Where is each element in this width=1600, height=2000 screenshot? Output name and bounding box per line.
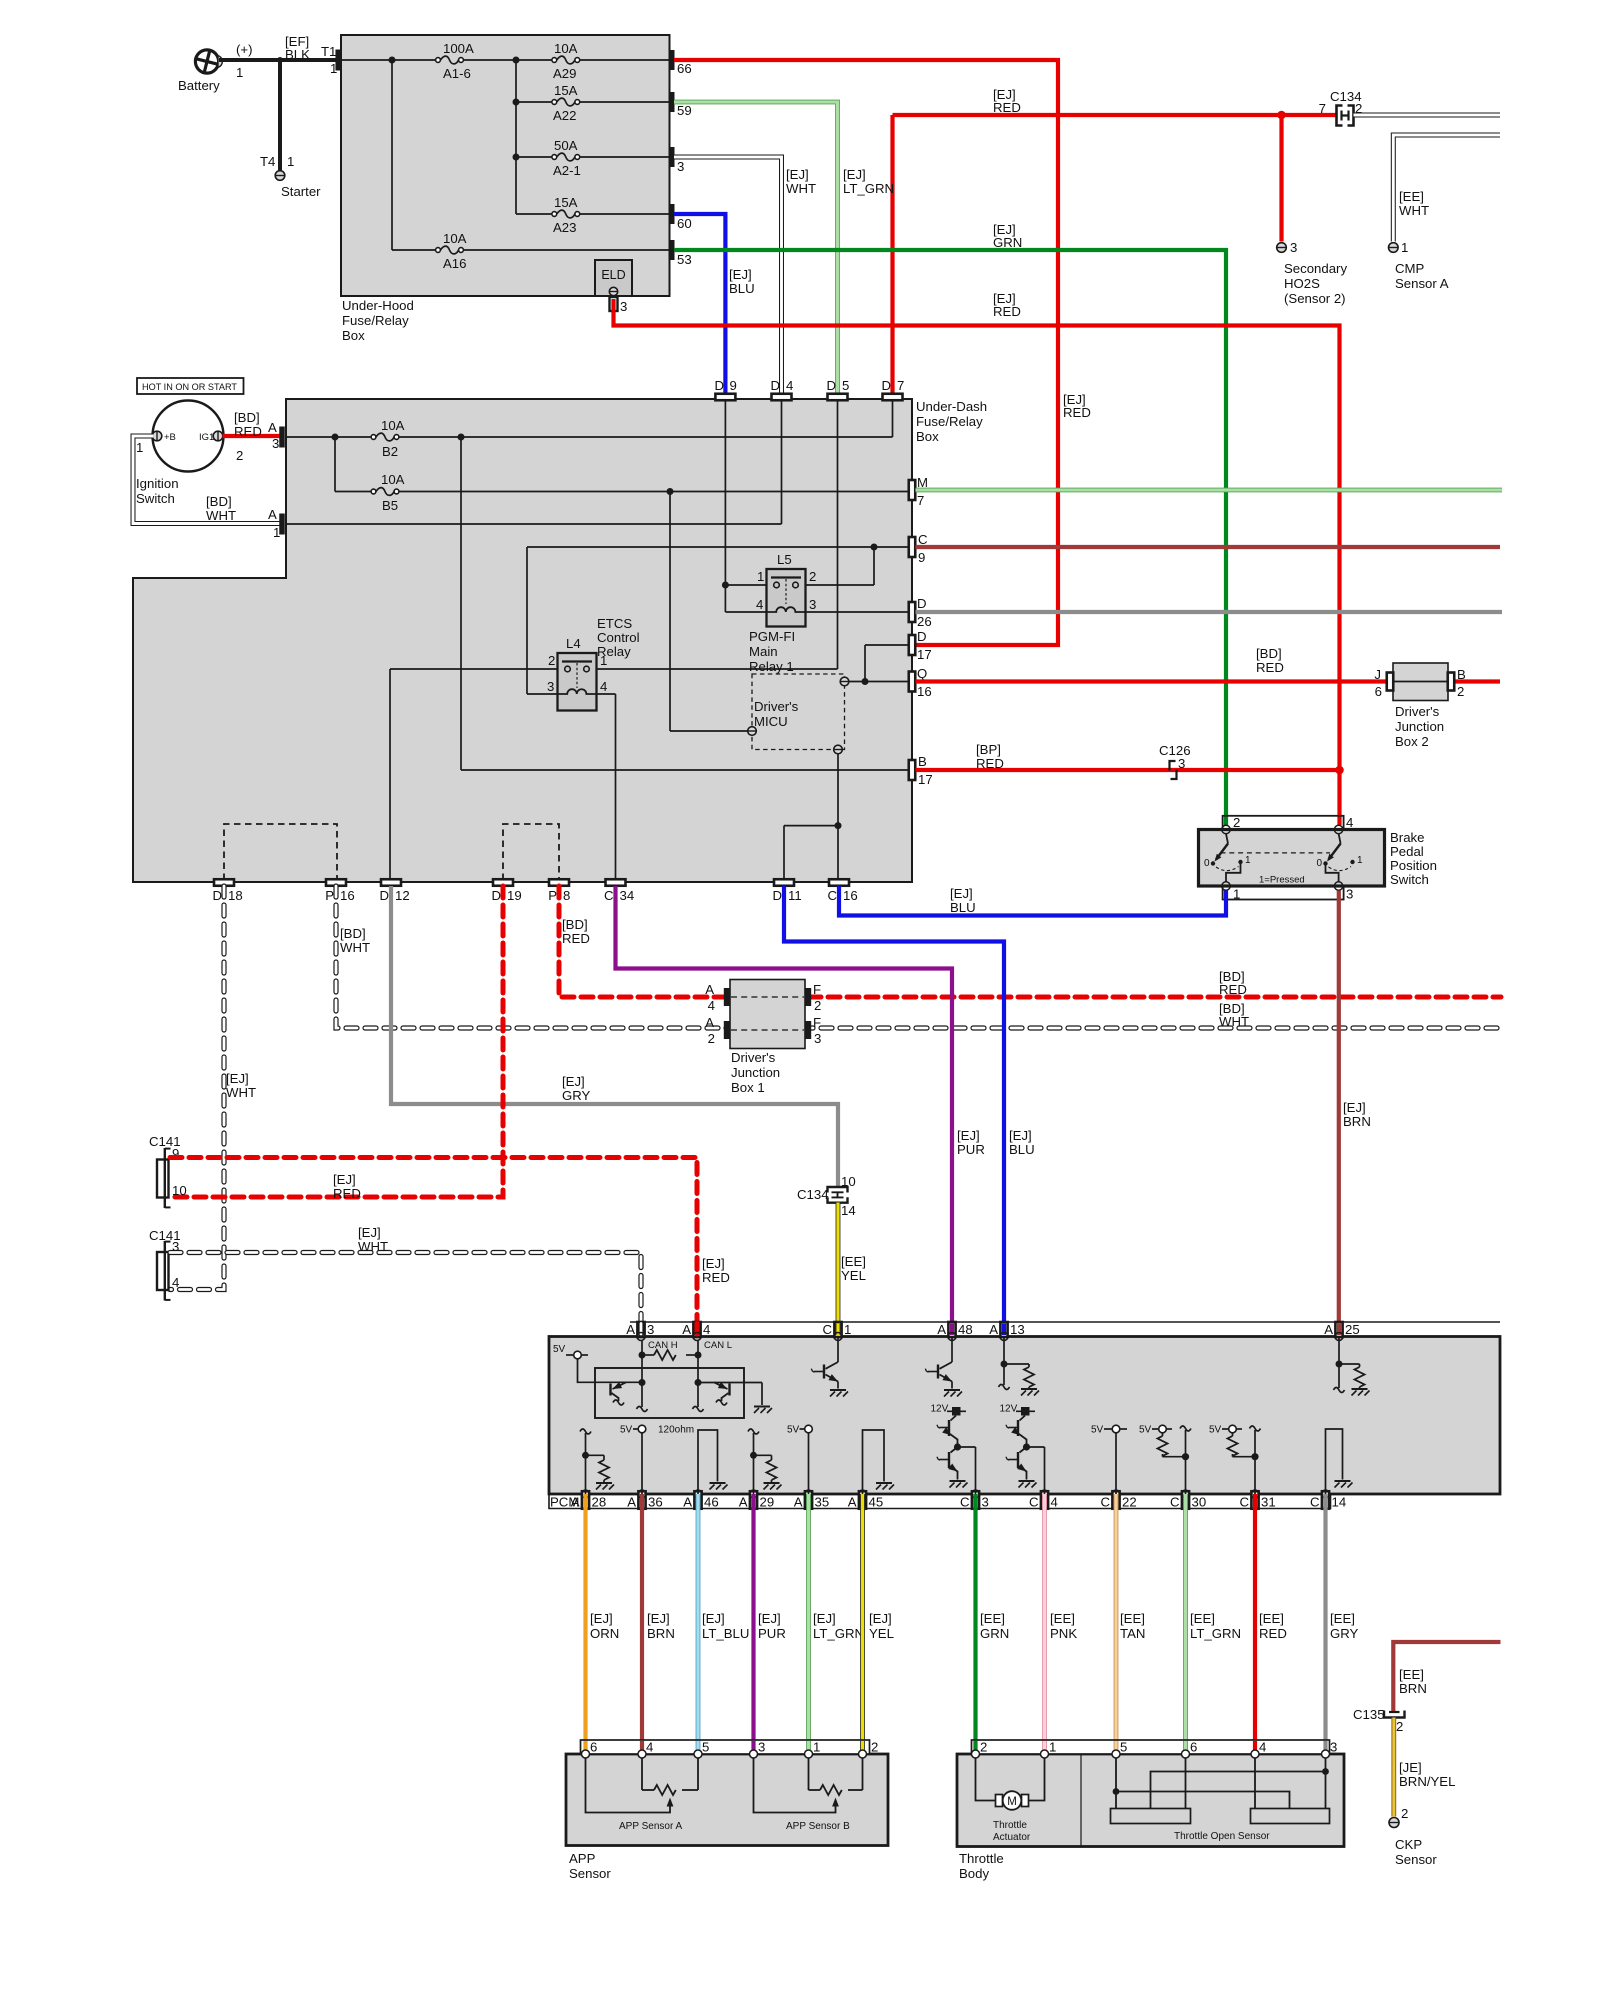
- svg-text:Body: Body: [959, 1866, 989, 1881]
- junction: [389, 57, 396, 64]
- svg-text:Throttle Open Sensor: Throttle Open Sensor: [1174, 1831, 1270, 1842]
- wire [EJ] RED ELD to brake switch pin 4: [614, 299, 1340, 825]
- connector 60: [670, 204, 675, 224]
- wire [EE] WHT to CMP sensor: [1393, 135, 1500, 242]
- connector B2: [1448, 673, 1455, 691]
- svg-text:Sensor: Sensor: [1395, 1852, 1437, 1867]
- svg-text:Starter: Starter: [281, 184, 321, 199]
- brake switch terminal 1: [1222, 882, 1230, 890]
- wire stub A25 maroon: [1337, 1324, 1341, 1336]
- fuse 10A A16: [436, 248, 441, 253]
- junction: [667, 488, 674, 495]
- svg-text:Relay: Relay: [597, 644, 631, 659]
- dashed link D18-P16: [224, 824, 337, 880]
- HOT IN ON OR START tag: [137, 378, 244, 394]
- svg-text:C135: C135: [1353, 1707, 1385, 1722]
- svg-text:J: J: [1374, 667, 1381, 682]
- PCM bottom pin A28: [582, 1491, 589, 1509]
- throttle wire pin3: [1325, 1758, 1327, 1809]
- APP pin terminal: [859, 1750, 867, 1758]
- svg-text:RED: RED: [1063, 405, 1091, 420]
- svg-text:A22: A22: [553, 108, 576, 123]
- connector C141 upper: [157, 1160, 169, 1198]
- svg-text:APP: APP: [569, 1851, 596, 1866]
- PCM top pin A48: [948, 1322, 955, 1337]
- wire L4 pin 4 to C34: [597, 693, 616, 695]
- svg-text:2: 2: [1233, 815, 1240, 830]
- connector C134 (lower): [828, 1187, 848, 1193]
- svg-text:1: 1: [1233, 887, 1240, 902]
- connector 3: [670, 147, 675, 167]
- svg-text:Relay 1: Relay 1: [749, 659, 794, 674]
- svg-text:2: 2: [1457, 684, 1464, 699]
- brake switch left contact arc: [1216, 867, 1239, 871]
- svg-text:B2: B2: [382, 444, 398, 459]
- svg-text:2: 2: [236, 448, 243, 463]
- svg-text:[EE]: [EE]: [1259, 1611, 1284, 1626]
- connector D9: [715, 394, 735, 401]
- connector D12: [381, 879, 401, 886]
- wire [BD] WHT P16 dashed: [336, 886, 1502, 1028]
- svg-text:ETCS: ETCS: [597, 616, 632, 631]
- connector A3: [279, 427, 285, 448]
- svg-text:Junction: Junction: [731, 1065, 780, 1080]
- svg-text:5V: 5V: [620, 1425, 633, 1436]
- PCM top pin A3: [637, 1322, 644, 1337]
- svg-text:1: 1: [757, 569, 764, 584]
- throttle pin terminal: [1041, 1750, 1049, 1758]
- connector A2: [724, 1021, 730, 1039]
- svg-text:3: 3: [677, 159, 684, 174]
- svg-text:5V: 5V: [553, 1344, 566, 1355]
- wire [EJ] LT_GRN M7: [916, 488, 1503, 493]
- svg-text:GRN: GRN: [993, 235, 1022, 250]
- brake switch right contact arc: [1329, 867, 1352, 871]
- wire stub throttle 5 tan: [1114, 1741, 1119, 1750]
- svg-text:A: A: [794, 1495, 803, 1510]
- svg-text:Control: Control: [597, 630, 640, 645]
- PCM top pin A25: [1335, 1322, 1342, 1337]
- ignition IG1 terminal: [213, 431, 223, 441]
- throttle pin terminal: [1251, 1750, 1259, 1758]
- svg-text:MICU: MICU: [754, 714, 788, 729]
- svg-text:10: 10: [172, 1183, 187, 1198]
- svg-text:RED: RED: [993, 100, 1021, 115]
- wire [EJ] RED 66 to D17: [674, 60, 1058, 645]
- svg-text:46: 46: [704, 1495, 719, 1510]
- svg-text:0: 0: [1204, 858, 1210, 869]
- wire [EE] LT_GRN C30 to throttle 6: [1183, 1494, 1188, 1754]
- connector 53: [670, 240, 675, 260]
- svg-text:WHT: WHT: [358, 1239, 388, 1254]
- svg-text:C: C: [960, 1495, 970, 1510]
- svg-text:BLU: BLU: [1009, 1142, 1035, 1157]
- svg-text:(+): (+): [236, 42, 252, 57]
- svg-text:RED: RED: [993, 304, 1021, 319]
- connector A4: [724, 988, 730, 1006]
- PCM C14 termination: [1326, 1429, 1343, 1494]
- wire stub C4 pink: [1042, 1496, 1047, 1508]
- PCM bottom pin ring C3: [972, 1490, 980, 1498]
- svg-text:F: F: [813, 1015, 821, 1030]
- svg-text:APP Sensor A: APP Sensor A: [619, 1821, 683, 1832]
- svg-text:BRN: BRN: [1399, 1681, 1427, 1696]
- wire stub A46 lt blue: [696, 1496, 701, 1508]
- wire stub A48 purple: [950, 1324, 954, 1336]
- ground: [761, 1383, 763, 1406]
- svg-text:WHT: WHT: [1219, 1014, 1249, 1029]
- svg-text:CMP: CMP: [1395, 261, 1425, 276]
- svg-text:D: D: [917, 596, 927, 611]
- svg-text:[EJ]: [EJ]: [1009, 1128, 1032, 1143]
- PCM bottom pin C4: [1041, 1491, 1048, 1509]
- svg-text:A: A: [627, 1495, 636, 1510]
- relay L4 ETCS Control Relay: [558, 653, 597, 711]
- svg-text:A2-1: A2-1: [553, 163, 581, 178]
- svg-text:16: 16: [917, 684, 932, 699]
- svg-text:1: 1: [287, 154, 294, 169]
- svg-text:PUR: PUR: [758, 1626, 786, 1641]
- svg-text:Sensor A: Sensor A: [1395, 276, 1449, 291]
- wire stub APP 6 orange: [583, 1741, 587, 1750]
- svg-text:[EE]: [EE]: [1399, 1667, 1424, 1682]
- svg-text:2: 2: [809, 569, 816, 584]
- svg-text:RED: RED: [562, 931, 590, 946]
- svg-text:[EE]: [EE]: [980, 1611, 1005, 1626]
- svg-text:(Sensor 2): (Sensor 2): [1284, 291, 1346, 306]
- PCM A48 driver transistor: [951, 1337, 953, 1363]
- svg-text:[EJ]: [EJ]: [786, 167, 809, 182]
- CMP sensor terminal 1: [1389, 243, 1399, 253]
- wire bus down from A1-6: [515, 60, 517, 214]
- svg-text:C134: C134: [797, 1187, 829, 1202]
- svg-text:7: 7: [917, 493, 924, 508]
- svg-text:A: A: [989, 1322, 998, 1337]
- svg-text:1: 1: [1245, 855, 1251, 866]
- relay L5 PGM-FI Main Relay 1: [767, 569, 806, 627]
- junction: [862, 678, 869, 685]
- svg-text:D: D: [212, 888, 222, 903]
- PCM bottom pin ring A29: [750, 1490, 758, 1498]
- svg-text:4: 4: [1051, 1495, 1058, 1510]
- svg-text:2: 2: [708, 1031, 715, 1046]
- svg-text:YEL: YEL: [841, 1268, 866, 1283]
- svg-text:6: 6: [1190, 1740, 1197, 1755]
- svg-text:1=Pressed: 1=Pressed: [1259, 875, 1305, 886]
- throttle pin terminal: [1182, 1750, 1190, 1758]
- svg-text:Driver's: Driver's: [754, 699, 799, 714]
- PCM bottom pin ring A35: [805, 1490, 813, 1498]
- connector C135: [1384, 1711, 1405, 1718]
- svg-text:[JE]: [JE]: [1399, 1760, 1422, 1775]
- APP sensor connector strip: [581, 1740, 870, 1754]
- throttle body connector strip: [972, 1740, 1330, 1754]
- connector C134 (upper): [1337, 106, 1343, 126]
- connector 59: [670, 92, 675, 112]
- svg-text:Q: Q: [917, 666, 927, 681]
- wire stub throttle 6 lt green: [1183, 1741, 1188, 1750]
- svg-text:1: 1: [813, 1740, 820, 1755]
- PCM bottom pin ring A36: [638, 1490, 646, 1498]
- PCM bottom pin C30: [1182, 1491, 1189, 1509]
- svg-text:53: 53: [677, 252, 692, 267]
- throttle wire pin4: [1254, 1758, 1256, 1809]
- PCM bottom pin ring C14: [1322, 1490, 1330, 1498]
- fuse 10A B2: [371, 435, 376, 440]
- svg-text:M: M: [1007, 1796, 1017, 1808]
- wire A3 to fuse B2 to D7: [286, 436, 371, 438]
- svg-text:RED: RED: [234, 424, 262, 439]
- ELD connector pin 3: [610, 297, 618, 311]
- CAN driver transistor left: [595, 1381, 642, 1383]
- APP pin terminal: [805, 1750, 813, 1758]
- svg-text:[EE]: [EE]: [1120, 1611, 1145, 1626]
- svg-text:Junction: Junction: [1395, 719, 1444, 734]
- wire [EJ] RED to C134 and HO2S: [893, 113, 1337, 117]
- PCM bottom pin A35: [805, 1491, 812, 1509]
- svg-text:RED: RED: [1219, 982, 1247, 997]
- svg-text:5: 5: [842, 378, 849, 393]
- svg-text:2: 2: [814, 998, 821, 1013]
- junction red: [1335, 766, 1344, 775]
- svg-text:3: 3: [982, 1495, 989, 1510]
- fuse 15A A22: [552, 100, 557, 105]
- fuse 10A B5: [371, 489, 376, 494]
- connector F3: [805, 1021, 811, 1039]
- svg-text:[EE]: [EE]: [1330, 1611, 1355, 1626]
- wire D26 gray: [916, 610, 1503, 614]
- svg-text:HOT IN ON OR START: HOT IN ON OR START: [142, 381, 237, 392]
- svg-text:D: D: [772, 888, 782, 903]
- svg-text:22: 22: [1122, 1495, 1137, 1510]
- wire C9 maroon: [916, 545, 1501, 549]
- wire bus down to A16: [391, 60, 393, 250]
- wire C9 to L4 pin 3: [527, 546, 909, 548]
- svg-text:Main: Main: [749, 644, 778, 659]
- brake switch right pole: [1339, 834, 1341, 844]
- svg-text:Sensor: Sensor: [569, 1866, 611, 1881]
- svg-text:17: 17: [918, 772, 933, 787]
- PCM A28 input circuit: [585, 1455, 587, 1494]
- PCM A46 termination: [698, 1430, 718, 1494]
- svg-text:30: 30: [1192, 1495, 1207, 1510]
- svg-text:D: D: [491, 888, 501, 903]
- wire [EJ] YEL A45 to APP 2: [860, 1494, 865, 1754]
- MICU terminal bottom: [834, 745, 843, 754]
- connector D5: [828, 394, 848, 401]
- CAN driver transistor right: [698, 1382, 762, 1384]
- svg-text:4: 4: [1346, 815, 1353, 830]
- svg-text:A: A: [683, 1495, 692, 1510]
- ELD terminal: [609, 287, 617, 295]
- svg-text:[EJ]: [EJ]: [729, 267, 752, 282]
- connector D18: [214, 879, 234, 886]
- connector C34: [606, 879, 626, 886]
- svg-text:10A: 10A: [443, 231, 467, 246]
- svg-text:[EE]: [EE]: [1050, 1611, 1075, 1626]
- wire stub A43 white: [638, 1324, 643, 1335]
- svg-text:14: 14: [1332, 1495, 1347, 1510]
- wire [EJ] BLU C16 to brake switch pin 1: [839, 886, 1226, 916]
- svg-text:[EJ]: [EJ]: [1343, 1100, 1366, 1115]
- svg-text:3: 3: [809, 597, 816, 612]
- svg-text:GRN: GRN: [980, 1626, 1009, 1641]
- junction: [513, 57, 520, 64]
- svg-text:LT_GRN: LT_GRN: [843, 181, 894, 196]
- junction: [332, 434, 339, 441]
- connector A1: [279, 514, 285, 535]
- connector J6: [1387, 673, 1394, 691]
- fuse 15A A23: [552, 212, 557, 217]
- svg-text:L4: L4: [566, 636, 581, 651]
- APP sensor B: [754, 1758, 836, 1813]
- wire [EJ] WHT C141 pin 3 to PCM A43: [170, 1253, 641, 1337]
- svg-text:P: P: [548, 888, 557, 903]
- PCM top pin A4: [693, 1322, 700, 1337]
- APP sensor box: [566, 1754, 888, 1846]
- wire [EJ] GRY D12 to C134: [391, 886, 838, 1186]
- svg-text:D: D: [379, 888, 389, 903]
- wire junction to MICU: [669, 492, 671, 732]
- PCM top pin ring A3: [637, 1333, 645, 1341]
- svg-text:13: 13: [1010, 1322, 1025, 1337]
- svg-text:4: 4: [703, 1322, 710, 1337]
- brake switch mechanical link: [1221, 852, 1331, 854]
- wire [EJ] BRN A36 to APP 4: [640, 1494, 644, 1754]
- svg-text:T4: T4: [260, 154, 275, 169]
- connector C126: [1170, 761, 1177, 779]
- wire [EJ] BLU 60 to D9: [674, 214, 725, 394]
- svg-text:3: 3: [647, 1322, 654, 1337]
- svg-text:A: A: [1324, 1322, 1333, 1337]
- wire [EJ] WHT D18 to C141 pin 4: [170, 886, 224, 1290]
- svg-text:18: 18: [228, 888, 243, 903]
- Driver's Junction Box 1: [730, 980, 805, 1049]
- fuse row A16: [392, 249, 435, 251]
- svg-text:C: C: [1310, 1495, 1320, 1510]
- svg-text:A: A: [571, 1495, 580, 1510]
- Driver's MICU dashed box: [752, 674, 845, 750]
- svg-text:A: A: [705, 1015, 714, 1030]
- svg-text:D: D: [770, 378, 780, 393]
- PCM bottom pin ring C30: [1182, 1490, 1190, 1498]
- svg-text:Actuator: Actuator: [993, 1832, 1031, 1843]
- wire [EJ] BLU D11 to PCM A13: [784, 886, 1004, 1336]
- svg-text:[EJ]: [EJ]: [843, 167, 866, 182]
- APP pin terminal: [750, 1750, 758, 1758]
- ignition +B terminal: [152, 431, 162, 441]
- brake switch terminal 4: [1334, 825, 1342, 833]
- CAN L node: [697, 1341, 699, 1383]
- throttle wire pin6: [1185, 1758, 1187, 1809]
- wire stub PCM bottom: [1253, 1496, 1257, 1508]
- svg-text:APP Sensor B: APP Sensor B: [786, 1821, 850, 1832]
- svg-text:C126: C126: [1159, 743, 1191, 758]
- wire stub A45 yellow: [860, 1496, 865, 1508]
- wire [EJ] PUR A29 to APP 3: [751, 1494, 755, 1754]
- junction battery/starter: [277, 57, 283, 63]
- svg-text:RED: RED: [1259, 1626, 1287, 1641]
- wire stub A35 lt green: [806, 1496, 811, 1508]
- svg-text:A: A: [268, 420, 277, 435]
- wire fuse row A1-6 / A29: [341, 59, 435, 61]
- svg-text:BRN: BRN: [647, 1626, 675, 1641]
- wire stub C11 yellow: [836, 1324, 841, 1336]
- connector M7: [909, 480, 916, 500]
- wire D17 to Q16 junction: [865, 644, 909, 646]
- svg-text:45: 45: [869, 1495, 884, 1510]
- svg-text:36: 36: [648, 1495, 663, 1510]
- svg-text:[EJ]: [EJ]: [333, 1172, 356, 1187]
- svg-text:Driver's: Driver's: [1395, 704, 1440, 719]
- PCM bottom pin ring C31: [1251, 1490, 1259, 1498]
- svg-text:RED: RED: [976, 756, 1004, 771]
- svg-text:WHT: WHT: [786, 181, 816, 196]
- svg-text:A23: A23: [553, 220, 576, 235]
- wire stub PCM bottom: [1323, 1496, 1327, 1508]
- svg-text:Throttle: Throttle: [993, 1820, 1027, 1831]
- fuse row A23: [516, 213, 552, 215]
- svg-text:C: C: [822, 1322, 832, 1337]
- connector C141 lower: [157, 1252, 169, 1290]
- svg-text:WHT: WHT: [340, 940, 370, 955]
- svg-text:6: 6: [1375, 684, 1382, 699]
- connector D11: [774, 879, 794, 886]
- svg-text:1: 1: [330, 61, 337, 76]
- svg-text:Fuse/Relay: Fuse/Relay: [916, 414, 983, 429]
- svg-text:2: 2: [1396, 1719, 1403, 1734]
- wire [EJ] LT_GRN 59 to D5: [674, 102, 838, 394]
- wire stub PCM bottom: [640, 1496, 644, 1508]
- svg-text:PUR: PUR: [957, 1142, 985, 1157]
- wire [EJ] RED C141 pin 9 to PCM A44: [170, 1158, 697, 1337]
- svg-text:C: C: [918, 532, 928, 547]
- PCM top pin ring A48: [948, 1333, 956, 1341]
- throttle wire pin5: [1115, 1758, 1117, 1809]
- wire stub throttle 2 green: [973, 1741, 977, 1750]
- svg-text:19: 19: [507, 888, 522, 903]
- svg-text:B5: B5: [382, 498, 398, 513]
- svg-text:GRY: GRY: [1330, 1626, 1359, 1641]
- svg-text:15A: 15A: [554, 83, 578, 98]
- svg-text:4: 4: [646, 1740, 653, 1755]
- svg-text:5: 5: [702, 1740, 709, 1755]
- svg-text:C: C: [1100, 1495, 1110, 1510]
- svg-text:[EJ]: [EJ]: [702, 1256, 725, 1271]
- svg-text:T1: T1: [321, 44, 336, 59]
- svg-text:25: 25: [1345, 1322, 1360, 1337]
- wire D4 to A1: [781, 400, 783, 524]
- PCM bottom pin C14: [1322, 1491, 1329, 1509]
- svg-text:A16: A16: [443, 256, 466, 271]
- PCM top pin ring A4: [693, 1333, 701, 1341]
- MICU terminal left: [748, 727, 757, 736]
- svg-text:A1-6: A1-6: [443, 66, 471, 81]
- svg-text:4: 4: [708, 998, 715, 1013]
- throttle open sensor track left: [1111, 1809, 1191, 1824]
- svg-text:WHT: WHT: [1399, 203, 1429, 218]
- MICU terminal right: [840, 677, 849, 686]
- wire [EJ] LT_GRN A35 to APP 1: [806, 1494, 811, 1754]
- svg-text:3: 3: [814, 1031, 821, 1046]
- connector D26: [909, 602, 916, 622]
- throttle pin terminal: [972, 1750, 980, 1758]
- svg-text:4: 4: [1259, 1740, 1266, 1755]
- svg-text:D: D: [917, 629, 927, 644]
- wire D5 to L4 pin 1: [837, 400, 839, 669]
- wire battery to T1 (EF BLK): [219, 58, 336, 62]
- wire [EJ] GRN 53 to brake switch pin 2: [674, 250, 1226, 825]
